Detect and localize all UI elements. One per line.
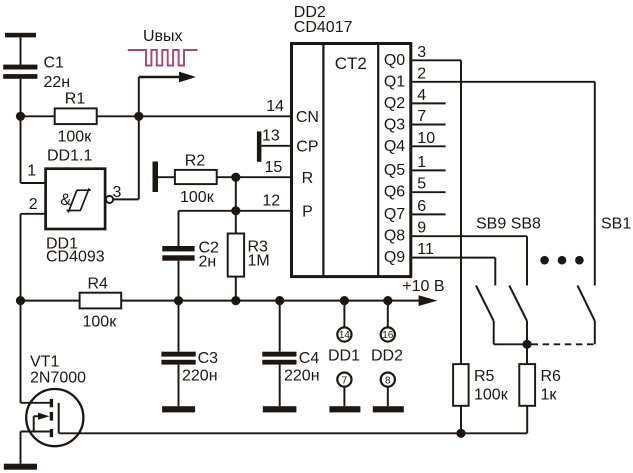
DD1 power pins [328,296,360,412]
svg-text:R6: R6 [541,368,562,385]
node junction C1/R1/DD1.1-pin1 [16,112,25,121]
svg-text:Q3: Q3 [384,116,405,133]
wire P pin [236,210,292,212]
pin 7 Q3 [412,108,446,125]
svg-text:6: 6 [417,198,426,215]
svg-text:7: 7 [342,375,348,386]
svg-text:10: 10 [417,130,435,147]
svg-text:2н: 2н [199,254,217,271]
svg-text:9: 9 [417,220,426,237]
wire [235,277,237,301]
svg-text:Q7: Q7 [384,206,405,223]
node junction R3 rail [231,296,240,305]
resistor R1 [21,91,97,146]
node junction rail left [16,296,25,305]
ground VT1 source [4,464,37,470]
node junction output/CN [134,112,143,121]
wire [20,79,22,117]
svg-text:100к: 100к [58,129,93,146]
resistor R6 [519,364,561,433]
ground (top-left) [5,33,36,38]
pin 3 output bubble [106,184,139,203]
svg-text:100к: 100к [180,189,215,206]
svg-text:P: P [302,204,313,221]
resistor R5 [453,364,509,433]
svg-text:15: 15 [265,159,283,176]
node junction R5/gate [456,429,465,438]
svg-text:Q9: Q9 [384,249,405,266]
svg-text:SB1: SB1 [601,216,631,233]
svg-text:C4: C4 [299,350,320,367]
wire [178,261,180,301]
svg-text:1: 1 [27,163,36,180]
pin 1 Q5 [412,154,446,171]
svg-text:R4: R4 [88,276,109,293]
svg-text:Q0: Q0 [384,52,405,69]
svg-text:&: & [60,191,71,209]
svg-text:220н: 220н [182,368,218,385]
pin 6 Q7 [412,198,446,215]
svg-text:100к: 100к [83,314,118,331]
waveform symbol [128,50,198,66]
wire [20,37,22,64]
node Uвых output arrow [139,28,196,199]
button SB1 [578,82,595,345]
svg-text:5: 5 [417,176,426,193]
svg-text:Q1: Q1 [384,73,405,90]
svg-text:3: 3 [417,44,426,61]
pin 11 Q9 [412,241,495,285]
node junction SB8/R6 [522,340,531,349]
resistor R2 [153,153,217,207]
svg-text:22н: 22н [44,74,71,91]
resistor R4 [80,276,122,331]
svg-text:Q2: Q2 [384,95,405,112]
wire gate bus bottom [59,432,528,434]
pin 4 Q2 [412,87,446,104]
svg-text:2: 2 [417,65,426,82]
svg-text:220н: 220н [284,368,320,385]
svg-text:Q5: Q5 [384,162,405,179]
svg-text:4: 4 [417,87,426,104]
+10 V rail [21,278,445,306]
pin 13 CP input [257,128,292,162]
svg-text:R: R [302,170,314,187]
node junction C2/C3 rail [174,296,183,305]
svg-text:CD4093: CD4093 [46,249,105,266]
svg-text:R5: R5 [474,368,495,385]
svg-text:C3: C3 [198,350,219,367]
svg-text:14: 14 [266,98,284,115]
DD1 CD4093 label [46,236,105,266]
wire R1 to CN [97,115,292,117]
svg-text:CD4017: CD4017 [294,19,353,36]
capacitor C1 [3,55,70,92]
button SB8 [509,286,527,345]
svg-text:1M: 1M [248,253,270,270]
svg-text:R2: R2 [185,153,206,170]
svg-text:Q6: Q6 [384,184,405,201]
resistor R3 [228,234,270,277]
ground C4 [263,406,297,412]
svg-text:CT2: CT2 [335,54,367,73]
svg-text:1к: 1к [541,386,558,403]
ground C3 [162,406,195,412]
capacitor C2 [162,240,219,271]
svg-text:Q4: Q4 [384,138,405,155]
svg-text:3: 3 [113,184,122,201]
pin 3 Q0 [412,44,461,364]
wire to R6 [526,344,528,364]
svg-text:DD1.1: DD1.1 [47,148,92,165]
svg-text:+10 В: +10 В [402,278,444,295]
svg-text:CP: CP [296,139,318,156]
pin 1 [21,116,46,183]
svg-text:13: 13 [262,128,280,145]
pin 2 [21,196,46,301]
wire to C2 [179,210,236,212]
svg-text:16: 16 [382,330,394,341]
wire R2 to R pin [217,176,292,178]
capacitor C3 [161,301,218,407]
svg-text:100к: 100к [474,386,509,403]
IC DD2 CD4017 [292,4,411,277]
pin 10 Q4 [412,130,446,147]
wire [235,177,237,233]
svg-text:8: 8 [385,375,391,386]
op-amp DD1.1 gate (CD4093 Schmitt NAND) [46,148,106,230]
svg-text:VT1: VT1 [30,353,59,370]
svg-text:SB9 SB8: SB9 SB8 [476,216,541,233]
transistor VT1 2N7000 [21,301,87,464]
capacitor C4 [262,301,319,407]
pin 2 Q1 [412,65,595,82]
ellipsis dots [540,256,583,265]
svg-text:12: 12 [262,193,280,210]
DD2 power pins [371,296,404,412]
node junction R2/R3 [231,173,240,182]
pin 9 Q8 [412,220,527,286]
svg-text:11: 11 [417,241,434,258]
svg-text:Uвых: Uвых [143,28,183,45]
svg-text:DD1: DD1 [328,348,360,365]
svg-text:CN: CN [296,109,319,126]
svg-text:R1: R1 [65,91,86,108]
svg-text:14: 14 [339,330,351,341]
dashed wire [532,343,595,345]
pin 5 Q6 [412,176,446,193]
svg-text:2N7000: 2N7000 [30,369,86,386]
svg-text:DD2: DD2 [371,348,403,365]
svg-text:C1: C1 [44,55,65,72]
svg-text:1: 1 [417,154,426,171]
svg-text:Q8: Q8 [384,228,405,245]
node junction P/C2 [231,206,240,215]
svg-text:7: 7 [417,108,426,125]
svg-text:2: 2 [29,196,38,213]
node junction C4 rail [275,296,284,305]
button SB9 [476,286,527,345]
